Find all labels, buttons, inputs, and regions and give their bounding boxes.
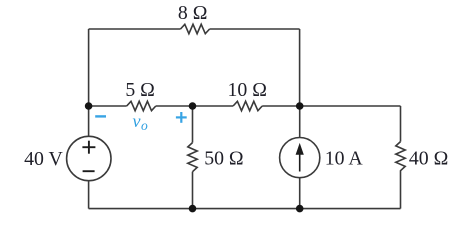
wire 50ohm branch lower <box>192 172 194 209</box>
label minus polarity of vo <box>95 115 106 117</box>
node dot mid-bottom <box>189 205 197 213</box>
wire middle center segment <box>156 105 233 107</box>
svg-text:40 V: 40 V <box>24 148 63 170</box>
plus sign inside voltage source <box>82 141 95 172</box>
current source arrow <box>296 143 304 172</box>
node dot right-middle <box>296 102 304 110</box>
wire top left segment <box>89 28 181 30</box>
minus sign inside voltage source <box>83 170 95 172</box>
wire 40ohm branch upper <box>400 106 402 142</box>
resistor R_5ohm zigzag <box>127 101 156 110</box>
wire current source upper lead <box>299 106 301 138</box>
wire bottom <box>89 208 401 210</box>
svg-text:40 Ω: 40 Ω <box>409 148 448 170</box>
svg-text:50 Ω: 50 Ω <box>204 148 243 170</box>
resistor R_10ohm zigzag <box>233 101 262 110</box>
node dot left-middle <box>85 102 93 110</box>
svg-text:10 Ω: 10 Ω <box>227 79 266 101</box>
wire 40V source upper lead <box>88 106 90 136</box>
resistor R_40ohm zigzag <box>396 142 405 174</box>
label plus polarity of vo <box>176 112 187 123</box>
wire 40V source lower lead <box>88 181 90 209</box>
voltage source V1 circle <box>67 136 111 180</box>
wire 50ohm branch upper <box>192 106 194 143</box>
node dot right-bottom <box>296 205 304 213</box>
svg-text:10 A: 10 A <box>325 148 364 170</box>
resistor R_8ohm zigzag <box>181 24 210 33</box>
current source I1 circle <box>280 138 320 178</box>
wire middle right segment <box>262 105 400 107</box>
resistor R_50ohm zigzag <box>188 143 197 172</box>
wire top-left vertical (node A to top) <box>88 29 90 106</box>
wire middle left segment <box>89 105 127 107</box>
wire 40ohm branch lower <box>400 174 402 209</box>
svg-text:5 Ω: 5 Ω <box>125 79 155 101</box>
wire current source lower lead <box>299 178 301 209</box>
svg-text:8 Ω: 8 Ω <box>178 2 208 24</box>
wire right vertical of top loop <box>299 29 301 106</box>
wire top right segment <box>210 28 300 30</box>
node dot mid-middle <box>189 102 197 110</box>
